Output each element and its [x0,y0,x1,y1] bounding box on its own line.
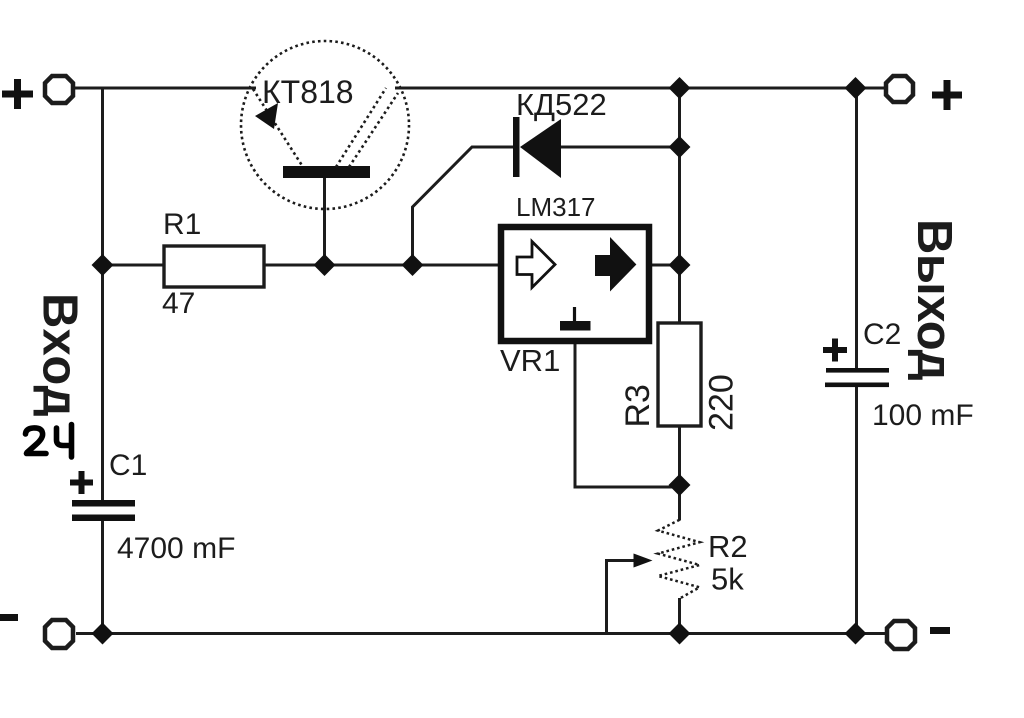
wire mid vertical rail from top rail down to R3 top [678,88,681,323]
resistor R1 body [164,246,264,287]
svg-text:LM317: LM317 [516,192,596,222]
junction node C (adjust wire / R3-R2) [669,474,691,496]
svg-text:C2: C2 [863,318,901,351]
terminal input - [45,620,73,648]
label input voltage 24 (handwritten) [26,425,72,458]
svg-text:R2: R2 [708,529,748,564]
transistor Q1 KT818 circle [241,41,409,209]
wire bottom rail [76,632,887,635]
wire transistor base lead down [323,176,326,265]
svg-text:VR1: VR1 [500,343,560,378]
capacitor C2 top plate [826,368,889,373]
svg-text:100 mF: 100 mF [872,399,974,432]
wire R2 wiper arm down to bottom rail [607,561,641,634]
label output - sign [930,627,950,634]
wire left vertical rail lower (C1 to bottom rail) [101,521,104,634]
junction node bottom rail / C2 branch [845,623,867,645]
svg-text:5k: 5k [711,562,744,597]
svg-text:КТ818: КТ818 [262,74,354,110]
wire R1 right lead to LM317 input [264,264,501,267]
svg-text:Вход: Вход [33,293,87,417]
wire C2 branch upper (top rail to C2) [855,88,858,369]
label C1 polarity + [70,471,93,494]
svg-text:КД522: КД522 [516,87,607,122]
label input - sign [0,614,18,621]
capacitor C1 top plate [72,500,135,507]
svg-text:220: 220 [703,374,741,431]
diode VD1 KD522 cathode bar [513,117,520,177]
wire C2 branch lower (C2 to bottom rail) [855,385,858,634]
svg-text:R1: R1 [163,208,201,241]
diode VD1 KD522 triangle [520,119,561,178]
junction node base / R1 output [314,254,336,276]
regulator VR1 input arrow (outline) [517,242,555,288]
wire LM317 adjust lead down and right to node C [575,344,672,487]
wire top rail left segment (input + to transistor emitter) [74,87,256,90]
junction node diode anode / mid rail [669,136,691,158]
transistor Q1 emitter arrow [255,103,278,129]
wire left vertical rail upper (input + down to C1) [101,88,104,500]
potentiometer R2 wiper arrowhead [634,554,653,568]
wire diode cathode left then diagonal down to node B [413,147,515,265]
transistor Q1 emitter line [253,89,303,167]
junction node top rail / C2 branch [845,77,867,99]
regulator VR1 output arrow (filled) [596,240,635,290]
wire node A to R1 left lead [103,264,165,267]
terminal input + [45,76,73,103]
junction node bottom rail / C1 branch [92,623,114,645]
svg-text:Выход: Выход [907,219,961,381]
junction node LM317 output / mid rail [669,254,691,276]
wire R3 bottom to R2 top [678,426,681,521]
junction node bottom rail / R2 [669,623,691,645]
junction node top rail / diode anode column [669,77,691,99]
terminal output + [886,76,913,102]
label input + sign [2,79,33,109]
regulator VR1 LM317 body [501,227,649,341]
transistor Q1 collector double line [336,88,398,167]
wire top rail right segment (transistor collector to output +) [395,87,888,90]
junction node B (diode branch / LM317 input wire) [402,254,424,276]
resistor R3 body [658,323,701,426]
svg-text:4700 mF: 4700 mF [117,532,235,565]
junction node A (input rail / R1) [92,254,114,276]
potentiometer R2 zigzag body [658,520,700,599]
wire LM317 output to mid vertical rail [651,264,680,267]
capacitor C2 bottom plate [825,383,889,388]
wire R2 bottom lead to bottom rail [678,598,681,634]
svg-text:R3: R3 [619,384,657,427]
label C2 polarity + [823,339,847,362]
svg-text:47: 47 [162,287,195,320]
svg-text:C1: C1 [109,449,147,482]
wire diode anode to mid vertical rail [561,146,680,149]
transistor Q1 base bar [283,166,370,178]
capacitor C1 bottom plate [72,515,135,522]
regulator VR1 adjust pin symbol [560,307,591,331]
terminal output - [887,621,915,649]
label output + sign [932,80,962,110]
